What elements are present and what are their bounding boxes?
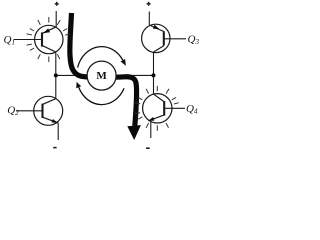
- plus supply terminal right: [147, 2, 151, 6]
- wire: Q2 emitter lead down to minus: [57, 123, 59, 140]
- wire: Q4 emitter lead down to minus: [150, 121, 152, 138]
- transistor Q1 emitter arrow (PNP points to base): [43, 28, 50, 33]
- minus terminal right: [146, 147, 150, 149]
- transistor Q3 emitter arrow (PNP points to base): [153, 25, 160, 30]
- transistor Q1 burst (active glow): [27, 17, 70, 62]
- wire: right rail Q3 collector to Q4 collector through node B: [153, 52, 155, 94]
- wire: thick current flow stroke from + through Q1, motor, Q4: [70, 13, 137, 126]
- wire: left rail Q1 emitter lead to +: [55, 11, 57, 27]
- transistor Q4 emitter arrow (NPN points out): [148, 117, 154, 121]
- motor M1 circle: [87, 61, 116, 90]
- transistor Q4 burst (active glow): [135, 86, 179, 131]
- transistor Q2 emitter arrow (NPN points out): [52, 119, 58, 123]
- transistor Q2 (NPN, bottom-left): [16, 96, 63, 125]
- svg-text:M: M: [96, 70, 107, 82]
- node A junction dot: [54, 73, 58, 77]
- wire: motor horizontal wire node A to node B: [56, 74, 154, 76]
- transistor Q1 (PNP, top-left): [14, 25, 64, 53]
- transistor Q3 (PNP, top-right): [142, 24, 186, 52]
- wire: right rail Q3 emitter lead to +: [148, 12, 150, 26]
- transistor Q4 (NPN, bottom-right): [143, 94, 185, 123]
- rotation arrow bottom arc: [79, 87, 125, 105]
- minus terminal left: [53, 147, 56, 149]
- node B junction dot: [152, 73, 156, 77]
- rotation arrow top arc: [78, 47, 123, 68]
- wire: left rail Q1 collector to Q2 collector through node A: [55, 52, 57, 99]
- plus supply terminal left: [55, 2, 59, 6]
- wire: arrowhead of thick current stroke: [127, 125, 141, 140]
